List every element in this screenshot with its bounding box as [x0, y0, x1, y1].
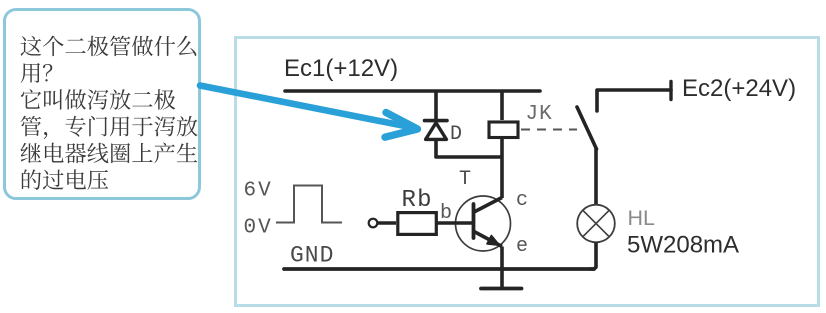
svg-text:JK: JK	[526, 103, 553, 126]
input pulse waveform	[276, 186, 342, 223]
wire: input terminal to resistor	[377, 221, 396, 224]
label T	[459, 168, 471, 191]
wire: relay coil bottom to collector node	[500, 139, 504, 198]
label 0V	[244, 217, 273, 240]
wire: switch to lamp top	[594, 148, 598, 205]
wire: Ec2 corner down to switch contact	[597, 90, 671, 111]
net label Ec1(+12V)	[284, 55, 398, 82]
switch JK contact blade	[577, 107, 597, 149]
transistor T (NPN)	[456, 196, 511, 251]
dashed mechanical link from coil to switch	[521, 129, 577, 131]
label 6V	[244, 180, 273, 203]
label Rb	[402, 187, 433, 214]
wire: rail to relay coil top	[500, 90, 504, 120]
svg-text:T: T	[459, 168, 471, 191]
label HL	[628, 206, 656, 230]
svg-text:D: D	[450, 123, 462, 146]
value label 5W208mA	[627, 232, 739, 259]
svg-text:Rb: Rb	[402, 187, 433, 214]
label D	[450, 123, 462, 146]
wire: ground rail	[284, 267, 594, 271]
svg-text:6V: 6V	[244, 180, 273, 203]
wire: rail to diode cathode	[434, 90, 438, 120]
svg-text:0V: 0V	[244, 217, 273, 240]
wire: lamp bottom to ground rail	[590, 243, 596, 270]
svg-text:5W208mA: 5W208mA	[627, 232, 739, 259]
relay coil JK (rectangle)	[489, 122, 518, 138]
terminal bar of Ec2	[669, 82, 672, 100]
label GND	[290, 243, 334, 269]
annotation text (Chinese callout text)	[21, 36, 198, 190]
label JK	[526, 103, 553, 126]
input terminal (small circle)	[369, 219, 378, 228]
svg-text:e: e	[516, 235, 528, 258]
net label Ec2(+24V)	[682, 75, 796, 102]
wire: emitter node through rail to ground	[500, 269, 504, 287]
wire: emitter to ground rail	[500, 247, 504, 270]
wire: +12V supply rail	[285, 89, 540, 93]
svg-text:HL: HL	[628, 206, 656, 230]
callout speech bubble	[3, 8, 201, 200]
ground symbol	[481, 287, 522, 291]
annotation arrow (blue) pointing to diode D	[200, 86, 418, 138]
wire: diode anode down and across to collector node	[436, 139, 501, 157]
label b	[440, 202, 452, 225]
lamp HL (circle with X)	[577, 205, 615, 243]
label e	[516, 235, 528, 258]
svg-text:Ec2(+24V): Ec2(+24V)	[682, 75, 796, 102]
label c	[516, 189, 528, 212]
svg-text:Ec1(+12V): Ec1(+12V)	[284, 55, 398, 82]
wire: resistor to base	[437, 221, 472, 225]
diode D (flyback diode, cathode up)	[425, 121, 448, 140]
svg-text:GND: GND	[290, 243, 334, 269]
resistor Rb	[398, 213, 437, 235]
svg-text:c: c	[516, 189, 528, 212]
